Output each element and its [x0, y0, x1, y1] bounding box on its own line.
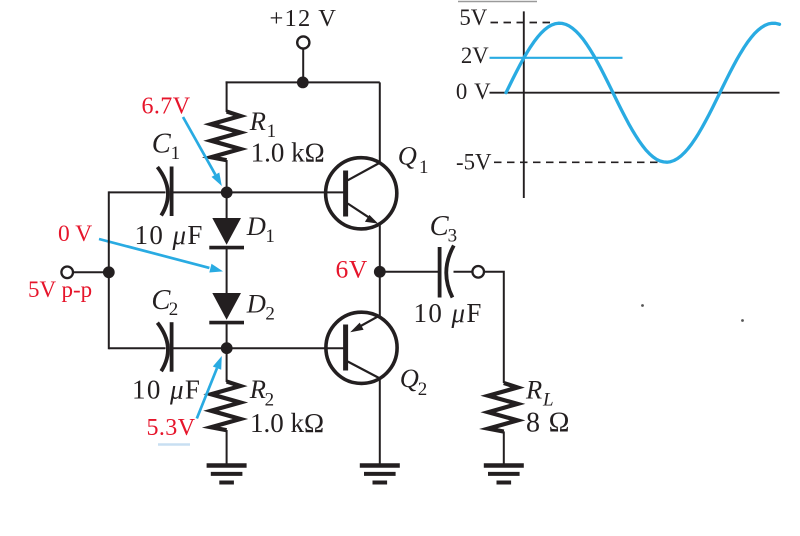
svg-text:2: 2	[265, 304, 275, 325]
wire rail to Q1 collector	[379, 82, 381, 163]
svg-text:+12 V: +12 V	[270, 5, 338, 32]
transistor Q1	[326, 158, 397, 229]
svg-text:1: 1	[171, 143, 181, 164]
transistor Q2	[326, 312, 397, 383]
wire node A to Q1 base	[227, 191, 344, 193]
svg-text:R: R	[525, 375, 542, 405]
wire C3 to output terminal	[454, 271, 473, 273]
arrow 0 V to diode midpoint	[99, 239, 223, 273]
waveform sine trace	[506, 23, 780, 162]
wire input vertical	[108, 191, 110, 349]
capacitor C1	[157, 167, 171, 217]
svg-text:6V: 6V	[336, 255, 368, 284]
svg-text:R: R	[249, 374, 266, 404]
svg-text:10 μF: 10 μF	[132, 375, 201, 405]
svg-text:1.0 kΩ: 1.0 kΩ	[250, 408, 324, 438]
ground RL	[484, 466, 524, 483]
svg-text:5.3V: 5.3V	[147, 415, 196, 441]
wire rail to R1	[226, 81, 228, 112]
terminal input	[61, 267, 73, 279]
svg-text:D: D	[246, 289, 266, 319]
wire 6V node to Q2 emitter	[379, 272, 381, 317]
svg-text:1: 1	[265, 226, 275, 247]
svg-text:5V p-p: 5V p-p	[28, 277, 92, 302]
wire 6V node to C3	[380, 271, 438, 273]
junction top rail	[297, 77, 309, 89]
wire R1 to node A	[226, 160, 228, 193]
resistor R1	[211, 112, 240, 161]
waveform vertical axis	[523, 11, 525, 198]
wire node A to D1	[226, 192, 228, 219]
resistor RL	[488, 383, 517, 432]
wire D2 to node B	[226, 324, 228, 348]
wire node B to Q2 base	[227, 347, 344, 349]
waveform 2V level line	[490, 57, 623, 59]
svg-text:Q: Q	[400, 363, 419, 393]
svg-text:R: R	[249, 106, 266, 136]
svg-text:10 μF: 10 μF	[135, 220, 204, 250]
svg-text:D: D	[246, 211, 266, 241]
wire Q2 collector to ground	[379, 378, 381, 464]
wire top rail	[226, 81, 380, 83]
capacitor C3	[440, 246, 454, 298]
svg-text:2V: 2V	[461, 43, 489, 68]
svg-text:C: C	[430, 211, 450, 242]
svg-text:2: 2	[418, 379, 428, 400]
wire node B to R2	[226, 348, 228, 382]
wire input stub	[73, 271, 109, 273]
svg-text:5V: 5V	[459, 5, 487, 30]
wire C2 to node B	[172, 347, 227, 349]
terminal +12 V	[297, 36, 309, 48]
wire input to C2	[109, 347, 166, 349]
svg-text:0 V: 0 V	[58, 221, 92, 247]
wire +12V stub	[302, 49, 304, 83]
wire output terminal to RL	[484, 272, 504, 383]
junction input	[103, 266, 115, 278]
waveform -5V dashed level	[494, 161, 658, 163]
svg-text:6.7V: 6.7V	[142, 94, 191, 120]
node B junction	[221, 342, 233, 354]
svg-text:C: C	[152, 129, 172, 160]
waveform 0 V axis	[490, 92, 780, 94]
svg-text:3: 3	[448, 226, 458, 247]
wire RL to ground	[503, 431, 505, 463]
resistor R2	[211, 382, 240, 431]
ground R2	[207, 466, 247, 483]
svg-text:10 μF: 10 μF	[414, 298, 483, 328]
svg-text:-5V: -5V	[456, 149, 492, 174]
wire R2 to ground	[226, 430, 228, 464]
svg-text:1: 1	[419, 157, 429, 178]
svg-text:1.0 kΩ: 1.0 kΩ	[251, 138, 325, 168]
node A junction	[221, 187, 233, 199]
svg-text:Q: Q	[398, 141, 417, 171]
wire Q1 emitter to 6V node	[379, 223, 381, 272]
wire input to C1	[109, 191, 166, 193]
diode D1	[209, 218, 244, 248]
ground Q2	[360, 466, 400, 483]
wire C1 to node A	[172, 191, 227, 193]
waveform 5V dashed level	[491, 22, 555, 24]
arrow 6.7V to node A	[183, 117, 222, 186]
wire D1 to D2	[226, 249, 228, 294]
diode D2	[209, 293, 244, 323]
node 6V junction	[374, 266, 386, 278]
arrow 5.3V to node B	[197, 356, 222, 419]
terminal output	[472, 266, 484, 278]
capacitor C2	[157, 322, 171, 372]
svg-text:2: 2	[169, 299, 179, 320]
svg-text:0 V: 0 V	[456, 79, 491, 104]
svg-text:8 Ω: 8 Ω	[526, 408, 570, 439]
